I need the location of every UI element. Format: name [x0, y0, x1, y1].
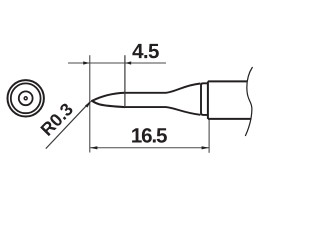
extension line left [89, 55, 91, 152]
leader arrow [85, 101, 91, 108]
front view outer circle [8, 80, 44, 116]
leader line R0.3 [46, 101, 91, 148]
dim line 4.5 [68, 62, 166, 64]
cylinder bottom edge [125, 107, 200, 115]
shaft left edge [207, 81, 209, 119]
shaft bottom edge [208, 118, 251, 120]
label R0.3 [40, 104, 72, 136]
label 4.5 [132, 44, 158, 58]
arrow 4.5 right [125, 61, 131, 64]
cone bottom edge [92, 101, 125, 107]
arrow 4.5 left [83, 61, 89, 64]
label 16.5 [132, 128, 167, 143]
front view middle circle [19, 91, 33, 105]
dim line 16.5 [90, 147, 209, 149]
shaft top edge [208, 80, 247, 82]
front view inner ring [11, 83, 41, 113]
break line [245, 67, 252, 136]
arrow 16.5 right [202, 146, 209, 149]
arrow 16.5 left [90, 146, 97, 149]
extension line step [124, 55, 126, 107]
cone top edge [92, 93, 125, 101]
collar band [201, 83, 208, 115]
cylinder top edge [125, 84, 200, 93]
front view center dot [24, 97, 27, 100]
extension line right [208, 120, 210, 153]
